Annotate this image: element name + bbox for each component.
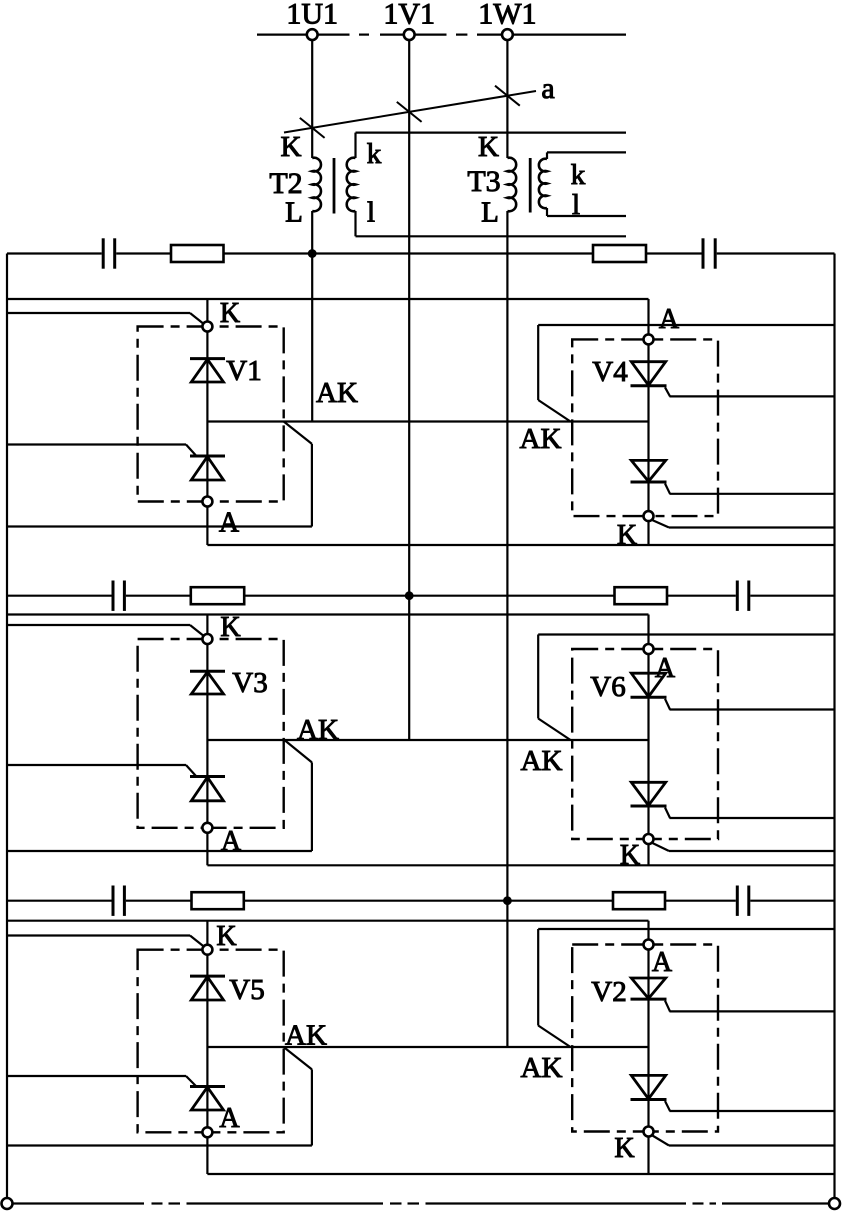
wire: AK mid-point bus row 2 <box>207 739 648 741</box>
diode V5 upper (cathode up) <box>190 976 225 1000</box>
wire: rail B row 1 (V1.A to right bus) <box>207 544 834 546</box>
svg-text:A: A <box>652 947 673 978</box>
wire: right vertical bus <box>833 254 835 1198</box>
svg-text:AK: AK <box>521 1052 563 1084</box>
node A (V5 anode terminal) <box>202 1127 212 1137</box>
thyristor V4 upper (cathode down) <box>631 362 671 397</box>
wire: V3 internal vertical <box>206 615 208 866</box>
thyristor V3 lower (cathode up, gated) <box>186 765 225 801</box>
wire: V2 internal vertical <box>647 950 649 1174</box>
node K (V2 cathode terminal) <box>644 1127 654 1137</box>
thyristor V2 upper (cathode down) <box>631 978 671 1011</box>
svg-text:K: K <box>614 1133 634 1164</box>
node A (V4 anode terminal) <box>644 334 654 344</box>
terminal 1U1 <box>307 29 318 40</box>
wire: rail B row 3 (V5.A to right bus) <box>207 1173 834 1175</box>
wire: V2 upper gate lead to right bus <box>670 1010 835 1012</box>
capacitor C row 1 left <box>103 238 115 268</box>
svg-text:V3: V3 <box>232 667 267 699</box>
capacitor C row 3 left <box>113 886 124 916</box>
svg-text:V6: V6 <box>590 671 625 703</box>
wire: V1 lower gate lead from left bus <box>7 443 186 445</box>
svg-text:k: k <box>571 159 586 191</box>
node K (V6 cathode terminal) <box>644 834 654 844</box>
junction dot row 2 (phase tap) <box>405 591 414 600</box>
wire: T3 secondary lead l (bottom) <box>547 215 626 217</box>
resistor R row 2 left <box>191 587 244 604</box>
thyristor V4 lower (cathode down) <box>631 460 671 493</box>
wire: rail row 2 (V3.K to V6.A) <box>7 615 649 644</box>
svg-text:L: L <box>285 197 303 229</box>
svg-text:K: K <box>220 612 240 643</box>
node K (V5 cathode terminal) <box>202 945 212 955</box>
thyristor V2 lower (cathode down) <box>631 1075 671 1111</box>
thyristor V5 lower (cathode up, gated) <box>186 1076 225 1110</box>
svg-text:AK: AK <box>520 423 562 455</box>
wire: V4 lower gate lead to right bus <box>670 493 835 495</box>
group line a (3-phase group marker diagonal) <box>284 86 536 138</box>
transformer T2 core <box>333 158 336 214</box>
module V5 enclosure (dash-dot box) <box>138 950 284 1133</box>
node K (V3 cathode terminal) <box>202 634 212 644</box>
resistor R row 3 left <box>192 892 244 909</box>
thyristor V1 lower (cathode up, gated) <box>186 445 225 481</box>
capacitor C row 2 left <box>113 581 124 611</box>
svg-text:AK: AK <box>285 1020 327 1052</box>
svg-text:A: A <box>655 653 676 684</box>
resistor R row 3 right <box>613 892 665 909</box>
svg-text:K: K <box>620 840 640 871</box>
terminal: bottom right output <box>829 1198 840 1209</box>
terminal: bottom left output <box>2 1198 13 1209</box>
svg-text:A: A <box>659 304 680 335</box>
svg-text:V2: V2 <box>591 976 626 1008</box>
svg-text:K: K <box>216 921 236 952</box>
wire: left vertical bus <box>6 254 8 1198</box>
wire: rail A row 2 (module AK to left bus) <box>7 740 312 851</box>
svg-text:K: K <box>281 131 302 163</box>
wire: snubber bus row 1 <box>7 252 835 254</box>
wire: V6 cathode link to right bus <box>652 843 834 851</box>
wire: V2 lower gate lead to right bus <box>670 1110 835 1112</box>
wire: top supply bus (dash-dot) 1U1-1V1-1W1 <box>257 33 626 35</box>
wire: phase 1W1 vertical <box>506 41 508 1047</box>
junction dot row 3 (phase tap) <box>503 896 512 905</box>
wire: V5 internal vertical <box>206 921 208 1174</box>
svg-text:AK: AK <box>316 377 358 409</box>
svg-text:l: l <box>572 189 580 221</box>
node A (V1 anode terminal) <box>202 497 212 507</box>
svg-text:AK: AK <box>521 745 563 777</box>
diode V1 upper (cathode up) <box>190 359 225 382</box>
wire: T3 secondary lead k (top) <box>547 151 626 153</box>
svg-text:V1: V1 <box>226 355 261 387</box>
wire: V4 internal vertical <box>647 345 649 545</box>
svg-text:A: A <box>221 826 242 857</box>
wire: rail row 1 (V1.K to V4.A) <box>7 299 649 334</box>
wire: V6 upper gate lead to right bus <box>670 708 835 710</box>
transformer T2 primary winding (on phase 1U1) <box>312 158 321 212</box>
svg-text:l: l <box>367 197 375 229</box>
transformer T3 core <box>529 158 532 213</box>
svg-text:A: A <box>219 508 240 539</box>
wire: rail row 3 (V5.K to V2.A) <box>7 921 649 939</box>
wire: V4 cathode link to right bus <box>652 520 834 527</box>
module V6 enclosure (dash-dot box) <box>572 649 718 839</box>
node K (V1 cathode terminal) <box>202 322 212 332</box>
svg-text:V5: V5 <box>229 974 264 1006</box>
capacitor C row 1 right <box>703 238 715 268</box>
wire: V3 cathode lead from left bus <box>7 625 203 635</box>
terminal 1W1 <box>502 29 513 40</box>
wire: V5 cathode lead from left bus <box>7 936 203 946</box>
wire: snubber bus row 2 <box>7 595 835 597</box>
wire: V1 internal vertical <box>206 299 208 545</box>
svg-text:a: a <box>541 72 554 105</box>
transformer T2 secondary winding <box>347 133 356 237</box>
wire: V4 AK link to right bus <box>538 325 834 422</box>
resistor R row 1 left <box>171 245 224 262</box>
wire: T2 secondary lead l (bottom) <box>356 235 627 237</box>
svg-text:K: K <box>478 131 499 163</box>
wire: rail A row 1 (module AK to left bus) <box>7 422 312 527</box>
wire: V6 lower gate lead to right bus <box>670 817 835 819</box>
svg-text:1W1: 1W1 <box>478 0 536 31</box>
resistor R row 2 right <box>615 587 668 604</box>
module V1 enclosure (dash-dot box) <box>138 327 284 502</box>
wire: V2 cathode link to right bus <box>652 1136 834 1146</box>
node K (V4 cathode terminal) <box>644 511 654 521</box>
wire: snubber bus row 3 <box>7 900 835 902</box>
wire: rail B row 2 (V3.A to right bus) <box>207 864 834 866</box>
wire: V6 AK link to right bus <box>538 635 834 741</box>
svg-text:T3: T3 <box>467 165 500 198</box>
svg-text:K: K <box>617 520 637 551</box>
terminal 1V1 <box>404 29 415 40</box>
module V3 enclosure (dash-dot box) <box>138 639 284 828</box>
thyristor V6 lower (cathode down) <box>631 782 671 818</box>
svg-text:A: A <box>219 1103 240 1134</box>
wire: V1 cathode lead from left bus <box>7 313 203 323</box>
wire: phase 1V1 vertical <box>408 41 410 740</box>
wire: V3 lower gate lead from left bus <box>7 764 186 766</box>
svg-text:K: K <box>220 298 240 329</box>
transformer T3 primary winding (on phase 1W1) <box>507 158 516 212</box>
thyristor V6 upper (cathode down) <box>631 673 671 709</box>
node A (V3 anode terminal) <box>202 823 212 833</box>
wire: AK mid-point bus row 3 <box>207 1046 648 1048</box>
svg-text:1V1: 1V1 <box>383 0 435 31</box>
wire: rail A row 3 (module AK to left bus) <box>7 1047 312 1146</box>
svg-text:L: L <box>481 197 499 229</box>
wire: phase 1U1 vertical <box>311 41 313 422</box>
svg-text:AK: AK <box>297 714 339 746</box>
node A (V2 anode terminal) <box>644 940 654 950</box>
svg-text:1U1: 1U1 <box>286 0 338 31</box>
wire: V6 internal vertical <box>647 655 649 866</box>
resistor R row 1 right <box>593 245 646 262</box>
wire: V5 lower gate lead from left bus <box>7 1075 186 1077</box>
wire: T2 secondary lead k (top) <box>356 132 627 134</box>
transformer T3 secondary winding <box>539 152 547 216</box>
wire: V4 upper gate lead to right bus <box>670 395 835 397</box>
module V2 enclosure (dash-dot box) <box>572 945 718 1132</box>
svg-text:k: k <box>367 138 382 170</box>
diode V3 upper (cathode up) <box>190 671 225 694</box>
svg-text:T2: T2 <box>269 167 302 200</box>
node A (V6 anode terminal) <box>644 644 654 654</box>
wire: bottom output bus (dash-dot) <box>14 1202 829 1204</box>
capacitor C row 3 right <box>737 886 749 916</box>
capacitor C row 2 right <box>737 581 749 611</box>
svg-text:V4: V4 <box>592 356 628 388</box>
wire: V2 AK link to right bus <box>538 929 834 1047</box>
module V4 enclosure (dash-dot box) <box>572 339 718 516</box>
junction dot row 1 (phase tap) <box>308 249 317 258</box>
wire: AK mid-point bus row 1 <box>207 420 648 422</box>
